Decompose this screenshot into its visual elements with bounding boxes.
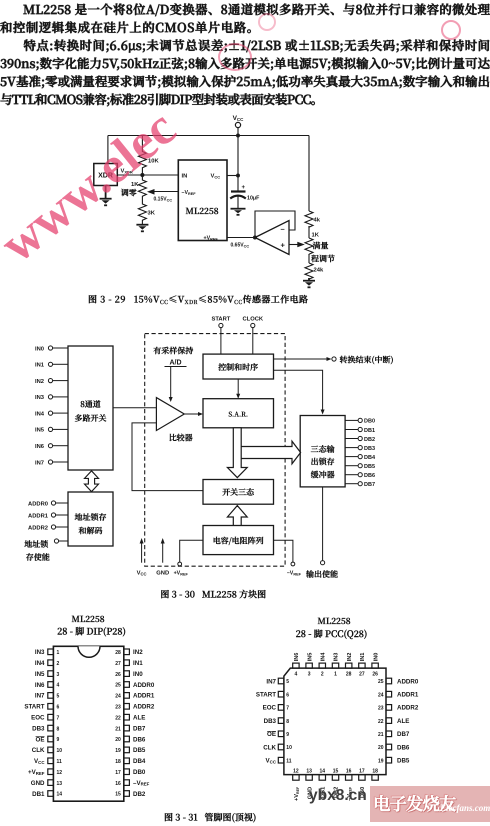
svg-text:19: 19 [115,748,121,754]
bus array to switch-tree (hollow arrow) [227,506,247,526]
svg-text:IN7: IN7 [266,678,276,685]
svg-text:ADDR2: ADDR2 [397,705,419,712]
block S.A.R. [203,399,274,428]
node +VREF [174,540,203,576]
svg-text:IN1: IN1 [133,660,143,667]
DIP pin 28 IN2 [115,649,143,656]
svg-text:ALE: ALE [397,718,409,725]
wire [308,254,310,263]
svg-text:23: 23 [378,706,384,712]
svg-text:DB5: DB5 [364,464,375,470]
PCC pin 20 DB6 (right) [378,744,410,751]
svg-text:ALE: ALE [133,715,145,722]
svg-text:和解码: 和解码 [79,526,104,537]
watermark circle 3 [258,13,276,31]
ground under 24k [303,278,315,287]
paragraph text [0,0,490,108]
capacitor 10uF polarized [230,185,260,208]
svg-text:4: 4 [57,683,60,689]
svg-text:ML2258: ML2258 [71,613,104,625]
svg-text:2: 2 [57,661,60,667]
svg-text:28: 28 [346,672,352,678]
wire op-amp + input to wiper [289,242,305,248]
PCC pin 5 IN7 (left) [266,678,289,685]
PCC pin 18 DB4 (bottom) [372,769,379,798]
svg-text:1: 1 [57,650,60,656]
node -VREF [274,540,302,576]
PCC pin 1 IN3 (top) [332,653,339,678]
svg-text:开关三态: 开关三态 [221,487,254,498]
svg-text:ADDR1: ADDR1 [28,513,49,519]
svg-text:出锁存: 出锁存 [311,457,335,468]
svg-text:IN4: IN4 [35,411,45,417]
svg-text:比较器: 比较器 [169,433,194,444]
data outputs DB0-DB7 [345,418,362,486]
svg-text:IN3: IN3 [35,395,45,401]
svg-text:IN4: IN4 [321,652,327,662]
svg-text:CLK: CLK [32,747,45,754]
IC ML2258 U1 [178,160,227,242]
DIP pin 19 DB5 [115,747,146,754]
svg-text:1K: 1K [312,233,320,239]
svg-text:9: 9 [57,737,60,743]
PCC pin 9 OE (left) [267,731,289,738]
svg-text:输出使能: 输出使能 [305,569,338,580]
block tri-state output latch buffer [300,416,345,487]
svg-text:14: 14 [320,769,326,775]
svg-text:CLOCK: CLOCK [242,317,263,323]
svg-text:24: 24 [115,694,121,700]
svg-text:20: 20 [378,745,384,751]
svg-text:21: 21 [378,732,384,738]
wire VCC pin [227,175,238,177]
svg-text:0.15VCC: 0.15VCC [154,197,173,203]
svg-text:DB6: DB6 [397,744,410,751]
svg-text:25: 25 [378,679,384,685]
svg-text:0.65VCC: 0.65VCC [231,243,250,249]
svg-text:6: 6 [286,692,289,698]
DIP pin 22 ALE [115,714,145,721]
svg-text:28: 28 [115,650,121,656]
svg-text:5: 5 [286,679,289,685]
svg-text:11: 11 [57,759,63,765]
svg-text:DB0: DB0 [133,769,146,776]
svg-text:电容/电阻阵列: 电容/电阻阵列 [213,536,264,547]
svg-text:+VREF: +VREF [174,571,189,577]
svg-text:IN7: IN7 [35,460,44,466]
svg-text:5: 5 [57,694,60,700]
DIP pin 6 START [24,704,59,711]
svg-text:13: 13 [57,781,63,787]
ground under XDR [100,186,112,206]
svg-text:IN6: IN6 [35,444,45,450]
potentiometer 1K (zero adjust) [120,175,147,199]
block 8-channel multiplexer [68,346,113,470]
svg-text:IN3: IN3 [334,653,340,662]
resistor 10K [138,136,159,176]
svg-text:16: 16 [115,781,121,787]
PCC pin 26 IN0 (top) [372,653,379,678]
transducer XDR [94,164,118,186]
wire top rail [108,135,309,137]
svg-text:DB4: DB4 [133,758,146,765]
svg-text:2: 2 [321,672,324,678]
svg-text:7: 7 [57,715,60,721]
svg-text:19: 19 [378,758,384,764]
svg-text:DB3: DB3 [264,718,277,725]
svg-text:ADDR2: ADDR2 [133,704,155,711]
wire interrupt out [274,355,394,366]
wire Vcc vertical to cap [237,136,239,192]
svg-text:23: 23 [115,705,121,711]
dashed chip boundary [145,334,285,567]
svg-text:IN0: IN0 [35,346,44,352]
svg-text:24: 24 [378,692,384,698]
bus SAR to switch-tree (hollow arrow) [227,428,247,478]
PCC pin 3 IN5 (top) [306,653,313,678]
svg-text:–VREF: –VREF [287,571,302,577]
svg-text:满量: 满量 [312,241,329,252]
DIP pin 5 IN7 [35,693,60,700]
svg-text:11: 11 [286,758,292,764]
svg-text:缓冲器: 缓冲器 [311,470,336,481]
svg-text:28 - 脚 DIP(P28): 28 - 脚 DIP(P28) [57,625,126,638]
svg-text:4k: 4k [314,218,321,224]
op-amp U2 [255,221,289,255]
svg-text:IN7: IN7 [35,693,45,700]
svg-text:IN0: IN0 [373,653,379,662]
svg-text:8: 8 [286,719,289,725]
svg-text:28 - 脚 PCC(Q28): 28 - 脚 PCC(Q28) [296,627,368,640]
DIP pin 3 IN5 [35,671,60,678]
svg-text:12: 12 [57,770,63,776]
svg-text:DB5: DB5 [397,758,410,765]
PCC pin 21 DB7 (right) [378,731,410,738]
watermark elecfans logo [370,786,490,822]
DIP pin 12 +Vref [28,769,62,776]
wire right rail down [308,136,310,212]
wire rail to XDR [107,136,109,164]
svg-text:18: 18 [115,759,121,765]
DIP pin 13 GND [31,780,63,787]
DIP pin 7 EOC [31,714,59,721]
svg-text:+VREF: +VREF [28,769,45,776]
svg-text:VCC: VCC [137,571,147,577]
DIP pin 1 IN3 [35,649,60,656]
DIP pin 18 DB4 [115,758,146,765]
PCC pin 23 ADDR2 (right) [378,705,419,712]
svg-text:10: 10 [57,748,63,754]
svg-text:S.A.R.: S.A.R. [228,409,248,418]
svg-text:3: 3 [57,672,60,678]
resistor 24k [305,263,324,279]
svg-text:13: 13 [306,769,312,775]
svg-text:OE: OE [267,731,276,738]
wire mux to comparator [113,407,156,409]
DIP pin 20 DB6 [115,736,146,743]
svg-text:ADDR0: ADDR0 [133,682,155,689]
svg-text:有采样保持: 有采样保持 [153,346,193,357]
DIP pin 21 DB7 [115,725,146,732]
svg-text:DB7: DB7 [133,725,146,732]
svg-text:地址锁存: 地址锁存 [74,512,107,523]
block capacitor/resistor array [203,526,274,555]
DIP body [53,646,123,801]
svg-text:IN1: IN1 [35,363,45,369]
PCC pin 27 IN1 (top) [359,653,366,678]
svg-text:三态输: 三态输 [311,444,335,455]
svg-text:18: 18 [372,769,378,775]
svg-text:控制和时序: 控制和时序 [217,362,258,373]
node output junction [254,236,257,239]
svg-text:IN0: IN0 [133,671,143,678]
svg-text:15: 15 [333,769,339,775]
PCC pin 17 DB0 (bottom) [359,769,366,798]
comparator [156,398,193,444]
DIP notch [78,646,100,657]
svg-text:10: 10 [286,745,292,751]
svg-text:IN6: IN6 [35,682,45,689]
resistor 3K [138,198,155,225]
svg-text:START: START [211,317,230,323]
svg-text:GND: GND [156,571,169,577]
svg-text:DB7: DB7 [364,482,375,488]
svg-text:IN5: IN5 [35,428,45,434]
PCC pin 22 ALE (right) [378,718,409,725]
svg-text:–VREF: –VREF [133,780,150,787]
svg-text:27: 27 [359,672,365,678]
PCC pin 4 IN6 (top) [293,653,300,678]
svg-text:DB2: DB2 [364,437,375,443]
svg-text:26: 26 [115,672,121,678]
wire comparator to SAR [184,412,203,416]
PCC pin 12 +Vref (bottom) [293,769,300,801]
DIP pin 10 CLK [32,747,62,754]
svg-text:10K: 10K [148,159,159,165]
node output enable [305,487,338,580]
svg-text:22: 22 [378,719,384,725]
DIP pin 11 Vcc [34,758,62,765]
DIP pin 8 DB3 [32,725,59,732]
DIP pin 9 OE [36,736,60,743]
node CLOCK [242,317,263,354]
svg-text:+: + [242,185,246,191]
svg-text:14: 14 [57,792,63,798]
PCC pin 2 IN4 (top) [319,652,326,678]
DIP pin 24 ADDR1 [115,693,155,700]
block address latch and decoder [68,492,113,546]
svg-text:转换结束(中断): 转换结束(中断) [339,355,394,366]
svg-text:ADDR2: ADDR2 [28,525,48,531]
svg-text:ADDR0: ADDR0 [28,501,48,507]
svg-text:地址锁: 地址锁 [23,539,48,550]
svg-text:IN4: IN4 [35,660,45,667]
DIP pin 15 DB2 [115,791,146,798]
bidirectional hollow arrow [85,471,99,492]
svg-text:图 3 - 29 15%VCC≤VXDR≤85%VCC传: 图 3 - 29 15%VCC≤VXDR≤85%VCC传感器工作电路 [88,293,309,307]
DIP pin 2 IN4 [35,660,60,667]
svg-text:DB1: DB1 [32,791,45,798]
svg-text:IN2: IN2 [35,379,44,385]
PCC pin 24 ADDR1 (right) [378,691,419,698]
svg-text:START: START [24,704,44,711]
svg-text:20: 20 [115,737,121,743]
svg-text:12: 12 [293,769,299,775]
svg-text:图 3 - 30 ML2258 方块图: 图 3 - 30 ML2258 方块图 [160,588,266,601]
svg-text:DB6: DB6 [364,473,375,479]
node VCC pin junction [237,174,240,177]
PCC pin 11 Vcc (left) [266,757,292,764]
potentiometer 1K full-scale adjust [305,233,335,265]
DIP pin 14 DB1 [32,791,62,798]
svg-text:多路开关: 多路开关 [75,413,107,424]
address inputs ADDR0-2 [28,501,49,531]
svg-text:OE: OE [36,736,45,743]
ground under 3K [136,225,148,232]
svg-text:6: 6 [57,705,60,711]
svg-text:3: 3 [308,672,311,678]
svg-text:IN3: IN3 [35,649,45,656]
svg-text:17: 17 [115,770,121,776]
svg-text:GND: GND [31,780,45,787]
svg-text:CLK: CLK [263,744,276,751]
DIP pin 27 IN1 [115,660,143,667]
block switch tri-state [203,480,274,505]
svg-text:17: 17 [359,769,365,775]
svg-text:24k: 24k [314,268,324,274]
svg-text:7: 7 [286,706,289,712]
svg-text:EOC: EOC [263,705,277,712]
svg-text:22: 22 [115,715,121,721]
svg-text:DB3: DB3 [364,446,375,452]
svg-text:VCC: VCC [266,758,277,765]
label sample-hold A/D [153,346,193,367]
svg-text:ADDR1: ADDR1 [133,693,155,700]
svg-text:EOC: EOC [31,715,45,722]
svg-text:调零: 调零 [120,188,137,199]
svg-text:–VREF: –VREF [182,190,197,196]
watermark www.elec diagonal [0,99,187,275]
wire XDR to IN [117,174,178,176]
PCC pin 14 DB1 (bottom) [319,769,326,798]
svg-text:25: 25 [115,683,121,689]
power Vcc [137,538,147,577]
PCC pin 6 START (left) [256,691,289,698]
svg-text:IN5: IN5 [307,653,313,662]
DIP pin 26 IN0 [115,671,143,678]
bus to output latch (hollow arrow) [241,441,300,464]
svg-text:8: 8 [57,726,60,732]
svg-text:IN6: IN6 [294,653,300,662]
ground under capacitor [231,209,246,215]
svg-text:A/D: A/D [169,360,181,367]
svg-text:1: 1 [334,672,337,678]
svg-text:21: 21 [115,726,121,732]
PCC pin 8 DB3 (left) [264,718,290,725]
wire wiper to -VREF [147,189,178,195]
node address latch enable [23,539,68,563]
wire Vcc to rail [237,128,239,136]
DIP pin 23 ADDR2 [115,704,155,711]
PCC pin 28 IN2 (top) [346,653,353,678]
PCC pin 10 CLK (left) [263,744,292,751]
Vcc power terminal [233,115,245,128]
svg-text:DB2: DB2 [133,791,146,798]
svg-text:DB1: DB1 [364,428,375,434]
PCC pin 13 GND (bottom) [306,769,313,800]
block control and timing [203,354,274,379]
svg-text:ADDR1: ADDR1 [397,692,419,699]
DIP pin 4 IN6 [35,682,60,689]
resistor 4k [305,211,321,227]
wire control to output latch [274,370,325,414]
svg-text:DB5: DB5 [133,747,146,754]
svg-text:4: 4 [295,672,298,678]
svg-text:IN: IN [182,174,188,180]
wire switch-tree to comparator [132,423,203,491]
svg-text:ML2258: ML2258 [185,205,218,217]
svg-text:START: START [256,692,276,699]
svg-text:8通道: 8通道 [80,399,101,410]
PCC pin 19 DB5 (right) [378,757,410,764]
watermark circle 2 [441,20,461,40]
svg-text:9: 9 [286,732,289,738]
svg-text:DB7: DB7 [397,731,410,738]
svg-text:DB3: DB3 [32,725,45,732]
svg-text:10μF: 10μF [247,196,260,202]
wire feedback loop [255,211,295,238]
PCC pin 7 EOC (left) [263,705,290,712]
svg-text:ML2258: ML2258 [317,615,350,627]
wire +VREF to op-amp output [227,237,255,239]
svg-text:VCC: VCC [34,758,45,765]
PCC pin 25 ADDR0 (right) [378,678,419,685]
PCC pin 15 DB2 (bottom) [332,769,339,798]
svg-text:XDR: XDR [98,173,113,180]
PCC body [284,668,386,775]
svg-text:3K: 3K [148,211,156,217]
DIP pin 25 ADDR0 [115,682,155,689]
node rail/Vcc junction [237,134,240,137]
svg-text:ADDR0: ADDR0 [397,678,419,685]
watermark circle 1 [218,43,252,71]
svg-text:IN1: IN1 [360,653,366,662]
watermark ybx8.cn [309,787,367,805]
wire control to SAR [236,379,240,399]
DIP pin 17 DB0 [115,769,146,776]
svg-text:图 3 - 31 管脚图(顶视): 图 3 - 31 管脚图(顶视) [164,811,256,824]
svg-text:IN5: IN5 [35,671,45,678]
svg-text:VXDR: VXDR [121,169,133,175]
svg-text:27: 27 [115,661,121,667]
wire A/D to comparator [169,367,173,403]
input terminals and wires [48,346,68,464]
DIP pin 16 -Vref [115,780,149,787]
svg-text:IN2: IN2 [133,649,143,656]
svg-text:DB0: DB0 [364,419,375,425]
svg-text:16: 16 [346,769,352,775]
PCC pin 16 -Vref (bottom) [346,769,353,801]
svg-text:DB4: DB4 [364,455,376,461]
node VXDR junction [141,174,144,177]
svg-text:+VREF: +VREF [294,786,300,801]
svg-text:–: – [281,225,285,234]
svg-text:+: + [281,241,286,250]
svg-text:VCC: VCC [211,174,221,180]
wire [308,226,310,238]
analog inputs IN0-IN7 [35,346,45,466]
svg-text:+VREF: +VREF [204,236,219,242]
